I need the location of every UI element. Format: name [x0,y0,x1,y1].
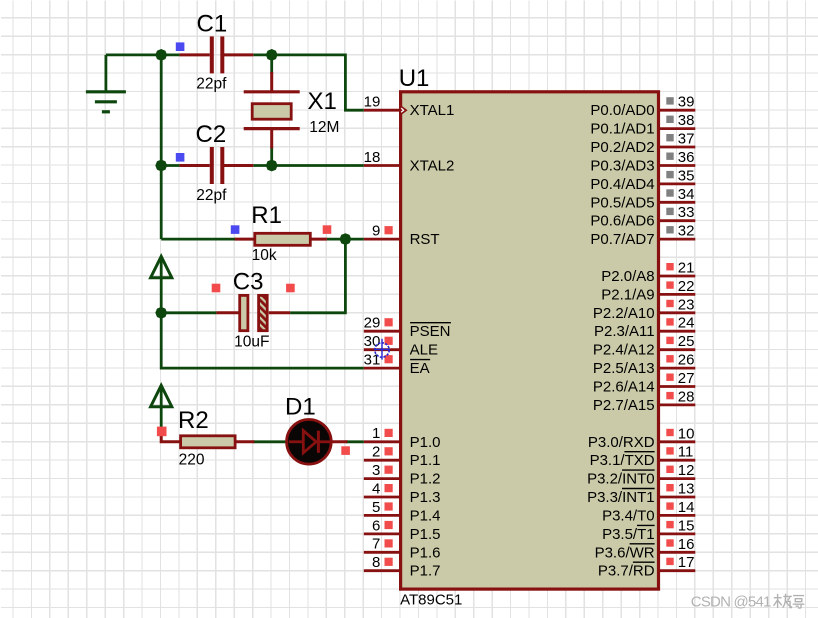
svg-text:X1: X1 [308,88,337,115]
svg-text:CSDN @541: CSDN @541 [691,594,771,611]
capacitor C3 left lead [216,311,239,314]
svg-text:32: 32 [678,223,695,240]
svg-text:15: 15 [678,517,695,534]
pin stub 13 right [659,496,696,499]
wire power arrow 2 stem [160,386,163,430]
capacitor C1 left lead [180,53,210,56]
capacitor C3 right lead [269,311,290,314]
pin stub 11 right [659,459,696,462]
svg-text:22pf: 22pf [196,187,227,204]
svg-text:12M: 12M [309,119,339,136]
pin stub 4 P1.3 [364,496,401,499]
pin stub 22 right [659,293,696,296]
svg-text:37: 37 [678,131,695,148]
wire crystal-top node to XTAL1 pin [272,55,364,110]
pin stub 15 right [659,533,696,536]
pin stub 7 P1.6 [364,551,401,554]
overline for P3.7/RD [633,561,655,563]
svg-text:P2.2/A10: P2.2/A10 [593,305,655,322]
svg-text:25: 25 [678,333,695,350]
node junction crystal top [266,49,278,61]
svg-text:28: 28 [678,388,695,405]
wire crystal bottom lead lower part [270,147,273,166]
power terminal arrow (VCC) upper [151,256,172,277]
pin stub 9 RST [364,238,401,241]
pin stub 10 right [659,440,696,443]
svg-text:P1.6: P1.6 [410,544,441,561]
resistor R1 right lead [310,238,327,241]
wire VCC corner to R2 left lead [161,429,180,441]
svg-text:14: 14 [678,499,695,516]
pin stub 37 right [659,146,696,149]
svg-text:P3.2/INT0: P3.2/INT0 [587,471,655,488]
svg-text:9: 9 [372,223,380,240]
svg-text:35: 35 [678,167,695,184]
svg-text:6: 6 [372,517,380,534]
pin stub 39 right [659,109,696,112]
node junction RST / C3 [340,233,352,245]
svg-text:7: 7 [372,536,380,553]
svg-text:U1: U1 [399,65,430,92]
wire crystal-bottom node to XTAL2 pin [272,164,364,167]
state square R1 right (red) [323,225,332,234]
svg-text:P1.7: P1.7 [410,563,441,580]
overline for P3.3/INT1 [622,488,655,490]
overline for P3.1/TXD [624,451,654,453]
wire stub [178,54,181,57]
pin stub 18 XTAL2 [364,164,401,167]
overline for P3.2/INT0 [622,469,655,471]
state square C2 left (blue) [176,153,185,162]
svg-text:XTAL1: XTAL1 [410,102,455,119]
svg-text:P2.3/A11: P2.3/A11 [594,323,655,340]
wire VCC junction to C3 left pin [161,311,216,314]
svg-text:22: 22 [678,278,695,295]
power terminal arrow (VCC) lower [151,385,172,406]
wire RST row to R1 left pin [161,238,236,241]
pin stub 6 P1.5 [364,533,401,536]
watermark glyph ge [793,596,805,608]
capacitor C2 right lead [223,164,254,167]
svg-text:13: 13 [678,481,695,498]
svg-text:26: 26 [678,352,695,369]
svg-text:P3.4/T0: P3.4/T0 [602,507,655,524]
pin stub 32 right [659,238,696,241]
svg-text:P2.7/A15: P2.7/A15 [593,397,655,414]
pin stub 19 XTAL1 [364,109,401,112]
overline for P3.5/T1 [637,524,655,526]
LED D1 anode lead [289,440,304,443]
node junction C2-left / trunk [155,160,167,172]
wire ground stem [105,55,108,92]
pin stub 8 P1.7 [364,569,401,572]
wire C2 right pin to crystal-bottom node [253,164,271,167]
svg-text:18: 18 [364,149,381,166]
pin stub 33 right [659,219,696,222]
svg-text:2: 2 [372,444,380,461]
svg-text:P3.6/WR: P3.6/WR [595,544,655,561]
svg-text:P1.4: P1.4 [410,507,441,524]
pin stub 35 right [659,182,696,185]
state square C3 right (red) [286,284,295,293]
svg-text:P1.2: P1.2 [410,471,441,488]
pin stub 17 right [659,569,696,572]
svg-text:PSEN: PSEN [410,323,451,340]
svg-text:22pf: 22pf [196,75,227,92]
pin stub 26 right [659,367,696,370]
pin stub 31 EA [364,367,401,370]
svg-text:10uF: 10uF [234,333,269,350]
crystal X1 bottom lead [270,129,273,149]
pin stub 5 P1.4 [364,514,401,517]
wire C1 right pin to crystal-top node [253,54,271,57]
pin stub 25 right [659,348,696,351]
svg-text:16: 16 [678,536,695,553]
svg-text:AT89C51: AT89C51 [400,591,462,608]
capacitor C2 left lead [180,164,210,167]
svg-text:P2.5/A13: P2.5/A13 [593,360,655,377]
wire R2 right pin to D1 anode pin [253,440,290,443]
node junction crystal bottom [266,160,278,172]
svg-text:27: 27 [678,370,695,387]
svg-text:10k: 10k [252,247,277,264]
pin stub 14 right [659,514,696,517]
svg-text:P0.4/AD4: P0.4/AD4 [590,176,654,193]
state square D1 cathode (red) [341,446,350,455]
wire RST junction down to C3 right pin [290,239,345,313]
capacitor C3 electrolytic plates [240,295,248,330]
svg-text:220: 220 [179,452,205,469]
pin stub 1 P1.0 [364,440,401,443]
pin stub 28 right [659,403,696,406]
wire R1 right pin to RST pin, via junction [327,238,364,241]
svg-text:31: 31 [364,352,381,369]
wire power arrow 1 stem [160,257,163,313]
svg-text:4: 4 [372,480,380,497]
svg-text:P1.0: P1.0 [410,434,441,451]
resistor R1 body [255,233,310,245]
svg-text:19: 19 [364,94,381,111]
watermark glyph ban [774,594,793,608]
wire crystal top lead upper part [270,55,273,74]
pin stub 2 P1.1 [364,459,401,462]
crystal X1 body [244,90,300,93]
svg-text:P0.7/AD7: P0.7/AD7 [590,231,654,248]
svg-text:P0.6/AD6: P0.6/AD6 [590,213,654,230]
svg-text:P0.1/AD1: P0.1/AD1 [590,121,654,138]
mouse cursor crosshair [374,339,390,360]
svg-text:P0.2/AD2: P0.2/AD2 [590,139,654,156]
state square C3 left (red) [212,284,221,293]
svg-text:P3.5/T1: P3.5/T1 [602,526,655,543]
pin stub 3 P1.2 [364,477,401,480]
svg-text:P3.0/RXD: P3.0/RXD [588,434,655,451]
svg-text:1: 1 [372,425,380,442]
svg-text:C3: C3 [233,268,264,295]
svg-text:P0.3/AD3: P0.3/AD3 [590,158,654,175]
node junction C1-left / trunk [155,49,167,61]
svg-text:30: 30 [364,333,381,350]
svg-text:ALE: ALE [410,342,438,359]
svg-text:12: 12 [678,462,695,479]
svg-text:39: 39 [678,94,695,111]
svg-text:P2.1/A9: P2.1/A9 [601,286,654,303]
resistor R2 right lead [235,440,254,443]
svg-text:P1.5: P1.5 [410,526,441,543]
svg-text:P2.4/A12: P2.4/A12 [593,342,655,359]
svg-text:33: 33 [678,204,695,221]
pin stub 12 right [659,477,696,480]
capacitor C1 plates [210,36,214,73]
capacitor C2 plates [210,147,214,184]
svg-text:P1.1: P1.1 [410,452,441,469]
wire C2 node to C2 left pin [161,164,179,167]
svg-text:36: 36 [678,149,695,166]
wire D1 cathode pin to P1.0 pin [345,440,363,443]
ground [86,92,126,112]
state square R2 power (red) [157,427,167,437]
overline for P3.6/WR [630,543,655,545]
pin stub 29 PSEN [364,330,401,333]
pin stub 36 right [659,164,696,167]
pin stub 38 right [659,127,696,130]
pin stub 34 right [659,201,696,204]
pin stub 16 right [659,551,696,554]
wire VCC junction down to EA pin 31 [161,313,364,368]
op IC U1 AT89C51 body [401,92,659,589]
pin stub 23 right [659,311,696,314]
state square C1 left (blue) [176,42,185,51]
capacitor C1 right lead [223,53,254,56]
svg-text:P0.5/AD5: P0.5/AD5 [590,194,654,211]
svg-text:P3.3/INT1: P3.3/INT1 [587,489,655,506]
crystal X1 top lead [270,72,273,92]
svg-text:EA: EA [410,360,430,377]
resistor R2 body [181,436,236,448]
svg-text:5: 5 [372,499,380,516]
svg-text:P3.7/RD: P3.7/RD [598,563,655,580]
pin stub 30 ALE [364,348,401,351]
svg-text:P1.3: P1.3 [410,489,441,506]
LED D1 cathode lead [318,440,348,443]
svg-text:34: 34 [678,186,695,203]
svg-text:P2.6/A14: P2.6/A14 [593,379,655,396]
wire GND to C1-left node [106,54,161,57]
resistor R1 left lead [235,238,255,241]
svg-text:C1: C1 [197,10,228,37]
svg-text:R1: R1 [251,202,282,229]
svg-text:24: 24 [678,315,695,332]
wire left trunk C1 node down to RST row [160,55,163,239]
svg-text:P3.1/TXD: P3.1/TXD [590,452,655,469]
svg-text:RST: RST [410,231,440,248]
svg-text:23: 23 [678,296,695,313]
svg-text:C2: C2 [196,121,227,148]
pin 19 clock input chevron [400,105,408,116]
svg-text:R2: R2 [178,407,209,434]
svg-text:8: 8 [372,554,380,571]
svg-text:11: 11 [678,444,694,461]
pin stub 21 right [659,275,696,278]
svg-text:P2.0/A8: P2.0/A8 [601,268,654,285]
svg-text:10: 10 [678,425,695,442]
svg-text:3: 3 [372,462,380,479]
svg-text:XTAL2: XTAL2 [410,158,455,175]
svg-text:P0.0/AD0: P0.0/AD0 [590,102,654,119]
pin stub 24 right [659,330,696,333]
node junction VCC / C3-left [155,307,167,319]
svg-text:29: 29 [364,315,381,332]
LED D1 [287,420,332,465]
svg-text:17: 17 [678,554,695,571]
wire C1 node to C1 left pin [161,54,179,57]
svg-text:D1: D1 [285,393,316,420]
svg-text:38: 38 [678,112,695,129]
svg-text:21: 21 [678,260,695,277]
pin stub 27 right [659,385,696,388]
state square R1 left (blue) [231,225,240,234]
